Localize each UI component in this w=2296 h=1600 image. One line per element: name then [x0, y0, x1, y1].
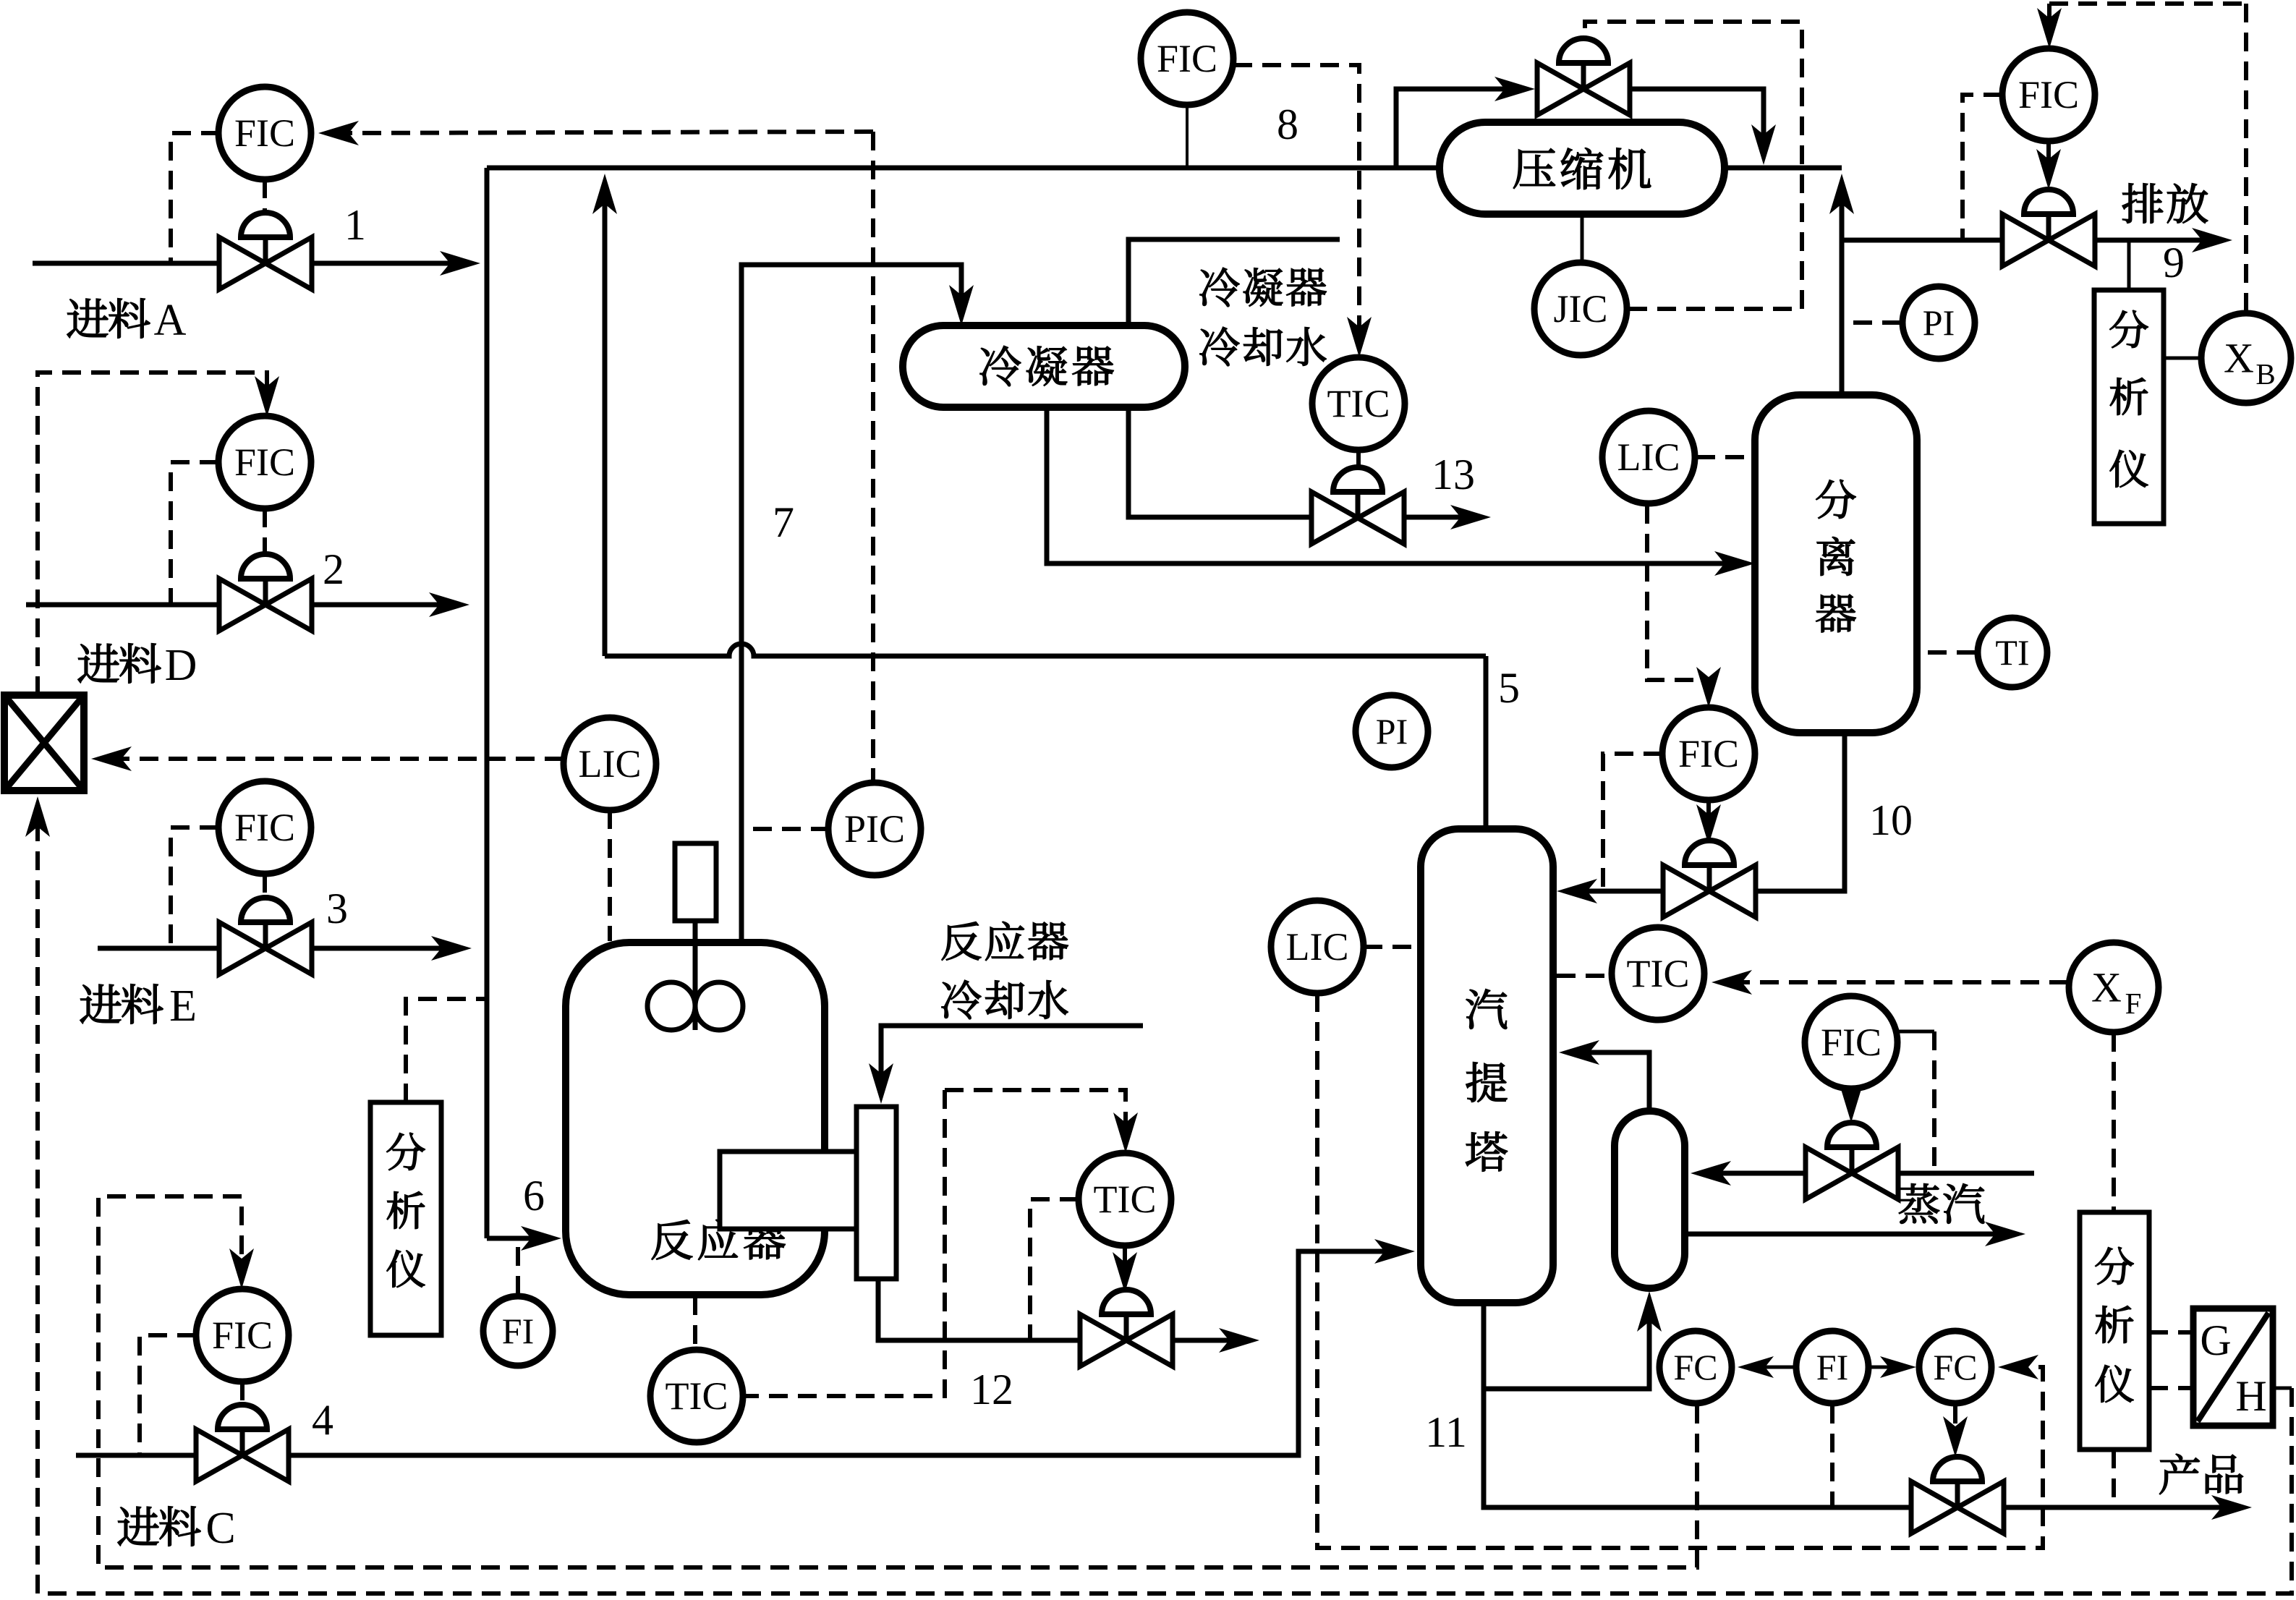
valve 12 reactor cooling water valve	[1080, 1314, 1173, 1366]
wire feed-E pipe into header, stream 3	[312, 946, 459, 951]
wire XF to product analyzer	[2112, 1033, 2116, 1211]
label vent analyzer	[2110, 310, 2148, 348]
feed analyzer box 分析仪	[370, 1102, 441, 1335]
label feed D 进料D	[78, 644, 119, 683]
wire stream 5 riser	[603, 187, 608, 656]
label compressor	[1513, 148, 1555, 188]
instrument FIC steam	[1805, 996, 1897, 1089]
wire PI pressure tap on riser	[1846, 320, 1901, 325]
wire FI tap on stream 6	[516, 1240, 520, 1295]
valve 4 feed C control valve	[196, 1429, 289, 1481]
wire PIC pressure tap	[746, 827, 830, 831]
wire FIC steam lead	[1897, 1030, 1934, 1034]
label condenser	[980, 346, 1021, 386]
wire product line stream 11	[1484, 1303, 1912, 1507]
vent analyzer box 分析仪	[2094, 290, 2164, 524]
wire stripper overhead to stream 5	[1484, 656, 1489, 829]
svg-text:FIC: FIC	[2018, 73, 2079, 116]
instrument FIC vent	[2002, 48, 2095, 141]
label feed A 进料A	[67, 299, 108, 338]
wire reactor LIC to summer	[104, 757, 564, 761]
wire summer output to FIC-D setpoint	[38, 373, 267, 695]
wire FIC-8 tap lead	[1186, 106, 1189, 168]
separator vessel 分离器	[1755, 395, 1917, 733]
svg-text:TIC: TIC	[1627, 952, 1690, 995]
svg-text:4: 4	[312, 1396, 333, 1444]
G/H ratio computer box	[2193, 1308, 2273, 1426]
instrument XF stripper analyzer	[2069, 942, 2159, 1032]
instrument FC product flow	[1919, 1331, 1991, 1403]
label product 产品	[2159, 1454, 2199, 1494]
wire vent FIC setpoint downleg	[2047, 4, 2051, 35]
instrument LIC separator	[1602, 411, 1695, 503]
wire reactor cooling water outlet	[878, 1279, 1081, 1340]
wire TI tap on separator	[1921, 650, 1976, 655]
wire product analyzer sample tap	[2112, 1450, 2116, 1506]
svg-text:A: A	[154, 296, 187, 345]
wire FIC-C to valve 4 stem	[240, 1382, 245, 1405]
svg-text:9: 9	[2163, 239, 2185, 286]
wire FI to FC ratio link right	[1870, 1366, 1903, 1369]
wire steam line into reboiler	[1704, 1171, 1806, 1176]
wire compressor inlet line	[1725, 166, 1842, 171]
svg-text:12: 12	[970, 1366, 1013, 1413]
label stripper	[1466, 990, 1507, 1029]
wire FIC-D measurement tap	[171, 462, 218, 603]
instrument JIC compressor	[1534, 263, 1627, 355]
wire stream 6 into reactor	[487, 1236, 548, 1241]
wire FIC-10 to valve 10 stem	[1706, 800, 1711, 832]
instrument FI stream 6	[483, 1296, 553, 1366]
label feed C 进料C	[118, 1507, 158, 1546]
wire separator liquid stream 10	[1756, 733, 1845, 891]
wire FIC-D to valve 2 stem	[263, 508, 267, 553]
svg-text:FI: FI	[1816, 1347, 1848, 1387]
svg-text:FIC: FIC	[234, 806, 295, 849]
wire FIC steam to valve stem	[1849, 1089, 1853, 1110]
svg-text:11: 11	[1425, 1408, 1467, 1456]
instrument FIC separator underflow	[1662, 707, 1755, 800]
instrument TI separator	[1978, 618, 2047, 687]
label feed E 进料E	[80, 984, 121, 1024]
svg-text:LIC: LIC	[1617, 435, 1680, 479]
svg-text:PIC: PIC	[844, 807, 905, 851]
wire FIC-C measurement tap	[140, 1335, 196, 1454]
wire FIC-A to valve 1 stem	[263, 179, 267, 211]
svg-text:1: 1	[344, 201, 366, 249]
wire analyzer to G/H link lower	[2149, 1386, 2193, 1390]
wire JIC output to bypass valve	[1585, 22, 1802, 309]
instrument FI product	[1796, 1331, 1868, 1403]
agitator motor	[675, 843, 716, 921]
wire vent line left segment	[1842, 238, 2003, 243]
wire reactor cooling water inlet	[881, 1026, 1143, 1091]
wire product line outlet	[2004, 1505, 2239, 1510]
instrument FIC feed E	[218, 781, 311, 874]
wire reactor TIC output riser	[743, 1090, 945, 1396]
wire XF analysis to stripper TIC	[1725, 980, 2068, 984]
wire analyzer to G/H link upper	[2149, 1330, 2193, 1335]
wire feed analyzer sample line	[406, 999, 485, 1102]
wire G/H analysis to summer	[38, 809, 2292, 1593]
svg-text:6: 6	[523, 1172, 545, 1220]
instrument FIC feed D	[218, 416, 311, 508]
wire FIC-8 output to condenser TIC	[1233, 65, 1359, 344]
stripper column 汽提塔	[1421, 829, 1553, 1303]
wire XB signal riser	[2244, 4, 2248, 312]
svg-text:FIC: FIC	[1821, 1021, 1882, 1064]
wire feed header vertical	[485, 168, 490, 1238]
wire stripper bottoms to reboiler	[1484, 1304, 1649, 1389]
svg-text:D: D	[165, 641, 197, 690]
instrument PIC pressure controller	[828, 783, 921, 875]
wire steam supply line	[1899, 1171, 2034, 1176]
instrument TIC reactor	[650, 1350, 743, 1442]
svg-text:2: 2	[323, 545, 344, 593]
wire FIC-E measurement tap	[171, 827, 218, 947]
summer X-box	[4, 695, 84, 791]
wire vent FIC to valve stem	[2046, 141, 2051, 176]
svg-text:PI: PI	[1923, 302, 1955, 343]
wire stripper LIC cascade to FC	[1317, 993, 2043, 1548]
svg-text:E: E	[169, 982, 197, 1031]
wire stripper TIC temperature tap	[1557, 974, 1612, 978]
instrument FIC feed C	[196, 1289, 289, 1382]
svg-text:C: C	[205, 1504, 235, 1553]
instrument XB vent analyzer	[2201, 313, 2291, 403]
label feed analyzer	[387, 1133, 425, 1170]
instrument FIC recycle stream 8	[1141, 12, 1233, 105]
wire vent line stream 9	[2096, 238, 2219, 243]
wire feed-C pipe left segment	[76, 1453, 195, 1458]
wire reactor TIC cascade to cooling TIC	[945, 1090, 1126, 1140]
wire PIC output to FIC-A	[331, 132, 873, 133]
wire FIC-E to valve 3 stem	[263, 874, 267, 897]
wire stripper LIC level tap	[1364, 945, 1415, 949]
wire G/H box output lead	[2273, 1387, 2292, 1390]
label condenser cooling water line 1	[1200, 268, 1239, 307]
label separator	[1816, 480, 1856, 519]
wire FIC-10 measurement tap	[1603, 754, 1662, 890]
valve 13 condenser cooling water valve	[1311, 492, 1404, 544]
instrument TIC condenser	[1312, 357, 1405, 450]
svg-text:LIC: LIC	[579, 742, 642, 786]
wire compressor bypass line	[1396, 89, 1522, 168]
svg-text:FIC: FIC	[1157, 37, 1217, 80]
wire cooling TIC to valve 12 stem	[1123, 1246, 1127, 1280]
label product analyzer	[2096, 1247, 2134, 1285]
svg-text:FC: FC	[1673, 1347, 1717, 1387]
wire separator LIC level tap	[1696, 455, 1751, 459]
svg-text:TI: TI	[1995, 632, 2029, 673]
valve 2 feed D control valve	[219, 579, 312, 631]
wire recycle main line stream 8	[487, 166, 1440, 171]
svg-text:F: F	[2125, 987, 2142, 1020]
reactor cooling bundle	[720, 1152, 856, 1229]
svg-text:LIC: LIC	[1286, 925, 1349, 969]
wire stream 10 into stripper	[1570, 889, 1662, 894]
svg-text:X: X	[2224, 335, 2254, 382]
valve 3 feed E control valve	[219, 922, 312, 974]
wire stream 5 horizontal with hop over stream 7 line	[605, 644, 1486, 656]
wire separator LIC cascade to FIC-10	[1647, 505, 1709, 694]
compressor vessel 压缩机	[1440, 122, 1725, 214]
valve steam control valve	[1806, 1147, 1898, 1199]
wire reboiler condensate outlet	[1685, 1232, 2012, 1237]
svg-text:X: X	[2091, 964, 2122, 1011]
wire compressor to JIC lead	[1581, 214, 1584, 263]
condenser vessel 冷凝器	[903, 325, 1185, 407]
svg-text:G: G	[2200, 1316, 2231, 1364]
valve 10 separator underflow valve	[1663, 865, 1756, 917]
wire stream 7 reactor overhead to condenser	[741, 265, 961, 942]
svg-text:TIC: TIC	[1327, 382, 1390, 425]
wire compressor bypass downleg	[1630, 89, 1764, 152]
wire FIC-A measurement tap	[171, 133, 220, 262]
label reactor	[652, 1220, 692, 1260]
wire condenser outlet to separator	[1047, 407, 1742, 563]
svg-text:13: 13	[1432, 451, 1475, 498]
label reactor cooling water line 1	[942, 922, 981, 961]
valve 1 feed A control valve	[219, 237, 312, 289]
svg-text:8: 8	[1277, 101, 1298, 148]
wire PIC signal riser	[871, 132, 875, 783]
wire feed-A pipe into header, stream 1	[311, 261, 467, 266]
label condenser cooling water line 2	[1200, 327, 1239, 366]
svg-text:B: B	[2255, 357, 2275, 391]
wire feed-A pipe left segment	[33, 261, 220, 266]
agitator impeller	[647, 982, 695, 1030]
instrument PI separator riser	[1902, 286, 1975, 359]
wire analyzer to XB lead	[2164, 357, 2202, 360]
svg-text:10: 10	[1869, 796, 1913, 844]
product analyzer box 分析仪	[2080, 1212, 2149, 1450]
svg-text:FIC: FIC	[234, 441, 295, 484]
wire condenser TIC to valve 13 stem	[1356, 450, 1361, 465]
svg-text:TIC: TIC	[1094, 1178, 1157, 1221]
svg-text:JIC: JIC	[1553, 287, 1607, 331]
svg-text:3: 3	[326, 885, 348, 932]
wire FI tap on product line	[1830, 1405, 1834, 1506]
svg-text:FIC: FIC	[212, 1314, 273, 1357]
svg-text:5: 5	[1498, 664, 1520, 712]
wire condenser cooling water inlet	[1128, 239, 1340, 325]
valve compressor bypass	[1537, 63, 1630, 115]
wire FC to product valve stem	[1953, 1405, 1957, 1444]
wire feed-D pipe into header, stream 2	[312, 603, 456, 608]
reactor cooling water channel	[856, 1107, 896, 1279]
wire reactor TIC temperature tap	[693, 1296, 697, 1348]
svg-text:TIC: TIC	[666, 1374, 728, 1418]
wire vent FIC measurement tap	[1963, 95, 2002, 239]
instrument LIC reactor	[564, 718, 656, 810]
wire FI to FC ratio link left	[1751, 1366, 1795, 1369]
wire cooling TIC measurement tap	[1030, 1199, 1079, 1339]
instrument TIC stripper	[1612, 927, 1704, 1020]
wire reboiler vapor return to stripper	[1572, 1052, 1649, 1111]
instrument LIC stripper	[1271, 901, 1364, 993]
wire feed-D pipe left segment	[26, 603, 218, 608]
svg-text:7: 7	[773, 498, 794, 546]
wire feed-E pipe left segment	[98, 946, 218, 951]
wire FIC steam measurement tap	[1932, 1031, 1936, 1172]
svg-text:FIC: FIC	[1678, 732, 1739, 775]
wire vent sample line to analyzer	[2127, 240, 2131, 289]
label reactor cooling water line 2	[942, 980, 981, 1019]
wire XB to vent FIC setpoint line	[2049, 1, 2246, 6]
agitator shaft	[693, 921, 698, 1030]
wire reactor LIC level tap	[608, 810, 612, 941]
wire separator vapor riser	[1840, 187, 1845, 395]
label vent 排放	[2122, 184, 2163, 224]
wire FC ratio output to FIC-C setpoint	[98, 1196, 1697, 1567]
label steam 蒸汽	[1899, 1183, 1939, 1223]
instrument PI stream 5	[1356, 695, 1428, 767]
valve 11 product control valve	[1911, 1481, 2004, 1533]
instrument TIC cooling water	[1079, 1153, 1171, 1246]
reboiler vessel	[1615, 1111, 1685, 1288]
instrument FC product ratio left	[1659, 1331, 1732, 1403]
svg-text:H: H	[2235, 1372, 2266, 1420]
instrument FIC feed A	[218, 87, 311, 179]
wire cooling water return stream 12	[1173, 1338, 1246, 1343]
svg-text:FC: FC	[1933, 1347, 1977, 1387]
svg-text:FI: FI	[502, 1311, 534, 1351]
wire feed-C pipe to stripper, stream 4	[289, 1251, 1402, 1455]
wire condenser cooling water outlet	[1128, 407, 1312, 517]
reactor vessel 反应器	[566, 942, 825, 1295]
svg-text:FIC: FIC	[234, 111, 295, 155]
valve 9 vent control valve	[2002, 214, 2095, 266]
wire cooling water outlet stream 13	[1405, 515, 1478, 520]
svg-text:PI: PI	[1376, 711, 1408, 752]
